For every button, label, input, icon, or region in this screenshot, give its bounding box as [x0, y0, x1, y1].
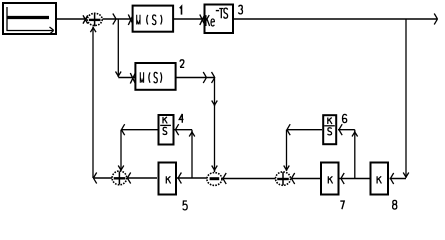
- wire corner to block8 right input: [390, 178, 407, 180]
- label 6: [343, 114, 347, 122]
- feedback vertical wire: [92, 27, 94, 179]
- arrowhead down at corner: [116, 72, 122, 77]
- step source block: [3, 3, 56, 34]
- wire K7 output into summer R: [291, 178, 321, 180]
- wire I4 output to corner left: [121, 129, 158, 131]
- arrowhead up on branch: [189, 131, 195, 136]
- arrowhead chevron mid: [113, 14, 116, 25]
- arrowhead chevron output: [434, 14, 437, 25]
- arrowhead chevron at corner: [122, 124, 125, 135]
- wire corner down to summer M: [214, 78, 216, 173]
- label 5: [183, 201, 187, 210]
- label 4: [179, 114, 183, 123]
- arrowhead chevron into block8: [391, 173, 394, 184]
- arrowhead chevron into I4: [176, 124, 179, 135]
- arrowhead chevron into summer L: [128, 173, 131, 184]
- block W2 : W(S): [135, 63, 175, 90]
- wire W1 to block D3: [174, 18, 204, 20]
- arrowhead down mid: [212, 101, 218, 106]
- label 3: [239, 5, 243, 14]
- arrowhead chevron into summer M: [223, 173, 226, 184]
- wire source to summer1: [56, 18, 87, 20]
- block D3 : Ke^-TS (delay): [205, 5, 234, 34]
- arrowhead chevron into K5: [178, 173, 181, 184]
- label 2: [180, 60, 184, 68]
- summing junction S1 (top, plus): [87, 13, 102, 26]
- arrowhead chevron into summer R: [292, 173, 295, 184]
- wire corner into I6 right: [338, 129, 355, 131]
- arrowhead X into summer1: [83, 15, 88, 23]
- wire summer R output into summer M: [222, 178, 276, 180]
- arrowhead X into W2: [130, 73, 135, 84]
- wire corner into I4 right: [175, 129, 193, 131]
- arrowhead down into summer R: [284, 166, 290, 171]
- block K5: [159, 163, 177, 195]
- wire summer1 to block W1: [103, 18, 132, 20]
- label 1: [180, 6, 182, 14]
- wire corner down into summer L: [120, 130, 122, 171]
- wire W2 output to corner: [177, 77, 215, 79]
- arrowhead X into D3: [200, 15, 205, 26]
- feedback: summer L output to left corner and up to summer1: [93, 177, 112, 179]
- block I4 : K/S integrator: [159, 115, 174, 145]
- block K8: [371, 163, 389, 195]
- arrowhead chevron into I6: [339, 124, 342, 135]
- arrowhead down into summer L: [118, 166, 124, 171]
- branch from main wire down to W2: [117, 19, 119, 77]
- wire K5 output into summer L: [127, 177, 158, 179]
- summing junction SR (bottom right, plus): [276, 172, 291, 185]
- arrowhead X into W1: [128, 15, 133, 26]
- wire corner down into summer R: [286, 130, 288, 171]
- block I6 : K/S integrator: [323, 115, 336, 144]
- node branch to block8: [405, 19, 407, 177]
- summing junction SM (bottom middle, minus): [207, 173, 222, 186]
- arrowhead chevron at corner left: [94, 173, 97, 184]
- wire I6 output to corner left: [287, 129, 323, 131]
- block W1 : W(S): [133, 6, 174, 32]
- arrowhead up into summer1: [90, 27, 96, 32]
- arrowhead chevron into K7: [341, 173, 344, 184]
- label 7: [340, 201, 344, 209]
- wire D3 output to right edge: [234, 18, 437, 20]
- summing junction SL (bottom left, plus): [112, 171, 127, 185]
- label 8: [393, 200, 397, 209]
- arrowhead up on branch: [352, 131, 358, 136]
- arrowhead chevron mid: [203, 72, 206, 83]
- arrowhead chevron at corner: [212, 72, 215, 83]
- arrowhead down into summer M: [212, 166, 218, 171]
- branch up into I4 right input: [191, 130, 193, 178]
- arrowhead chevron at corner: [287, 124, 290, 135]
- wire K8 output to K7 input: [340, 178, 370, 180]
- wire corner to W2 input: [118, 77, 134, 79]
- block K7: [321, 163, 339, 195]
- arrowhead down at corner: [403, 173, 409, 178]
- wire summer M output to K5 input: [177, 177, 207, 179]
- branch up into I6 right input: [354, 130, 356, 178]
